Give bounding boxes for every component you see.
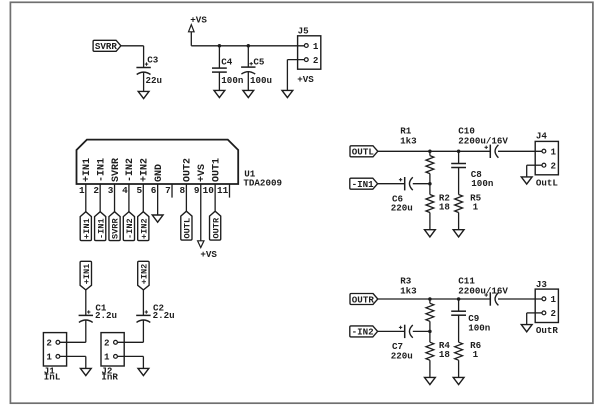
svg-text:J3: J3 [536, 279, 548, 290]
svg-text:OutR: OutR [536, 325, 559, 336]
svg-text:J4: J4 [536, 131, 548, 142]
svg-text:2: 2 [104, 338, 110, 349]
svg-text:-IN2: -IN2 [125, 218, 135, 239]
svg-text:OUT1: OUT1 [211, 158, 222, 182]
svg-text:+IN2: +IN2 [140, 264, 150, 285]
svg-text:2200u/16V: 2200u/16V [458, 286, 508, 297]
svg-text:-IN1: -IN1 [352, 179, 375, 190]
svg-text:+IN1: +IN1 [82, 158, 93, 182]
svg-text:1: 1 [473, 349, 479, 360]
svg-text:1: 1 [473, 201, 479, 212]
svg-text:TDA2009: TDA2009 [243, 178, 282, 189]
svg-text:+IN1: +IN1 [82, 218, 92, 239]
svg-text:1k3: 1k3 [400, 135, 417, 146]
svg-text:11: 11 [217, 185, 229, 196]
svg-text:+IN1: +IN1 [82, 264, 92, 285]
svg-text:+VS: +VS [190, 14, 207, 25]
svg-text:OUTR: OUTR [352, 294, 375, 305]
svg-text:1: 1 [79, 185, 85, 196]
svg-text:2.2u: 2.2u [153, 310, 175, 321]
svg-text:100n: 100n [221, 75, 243, 86]
svg-text:2: 2 [551, 161, 557, 172]
svg-text:OUT2: OUT2 [183, 158, 194, 182]
svg-text:+VS: +VS [197, 164, 208, 182]
svg-text:10: 10 [203, 185, 215, 196]
svg-text:1k3: 1k3 [400, 286, 417, 297]
svg-text:18: 18 [439, 349, 451, 360]
svg-text:-IN1: -IN1 [96, 158, 107, 182]
svg-text:18: 18 [439, 201, 451, 212]
svg-text:1: 1 [551, 294, 557, 305]
svg-text:5: 5 [136, 185, 142, 196]
svg-text:1: 1 [313, 41, 319, 52]
svg-text:-IN2: -IN2 [125, 158, 136, 182]
svg-text:+IN2: +IN2 [140, 158, 151, 182]
svg-text:InL: InL [44, 371, 61, 382]
svg-text:100n: 100n [471, 178, 493, 189]
svg-text:SVRR: SVRR [111, 218, 121, 239]
svg-text:7: 7 [165, 185, 171, 196]
svg-text:+VS: +VS [297, 74, 314, 85]
svg-text:2: 2 [46, 338, 52, 349]
svg-text:2.2u: 2.2u [95, 310, 117, 321]
svg-text:C3: C3 [147, 55, 159, 66]
svg-text:9: 9 [194, 185, 200, 196]
svg-text:GND: GND [154, 164, 165, 182]
svg-text:+IN2: +IN2 [139, 218, 149, 239]
svg-text:220u: 220u [391, 203, 413, 214]
svg-text:-IN2: -IN2 [352, 327, 374, 338]
svg-text:6: 6 [151, 185, 157, 196]
svg-text:4: 4 [122, 185, 128, 196]
svg-text:22u: 22u [146, 75, 163, 86]
svg-text:C5: C5 [253, 56, 265, 67]
svg-text:2: 2 [551, 308, 557, 319]
svg-text:SVRR: SVRR [95, 41, 118, 52]
svg-text:1: 1 [104, 352, 110, 363]
svg-text:InR: InR [101, 371, 118, 382]
svg-text:100u: 100u [250, 75, 272, 86]
svg-text:1: 1 [551, 146, 557, 157]
svg-text:OUTL: OUTL [183, 218, 193, 239]
svg-text:-IN1: -IN1 [96, 218, 106, 239]
svg-text:8: 8 [180, 185, 186, 196]
svg-text:+VS: +VS [200, 249, 217, 260]
svg-text:2: 2 [93, 185, 99, 196]
svg-text:OUTL: OUTL [352, 147, 375, 158]
svg-text:OUTR: OUTR [211, 217, 221, 238]
svg-text:2: 2 [313, 55, 319, 66]
svg-text:SVRR: SVRR [111, 158, 122, 182]
svg-text:OutL: OutL [536, 177, 559, 188]
svg-text:J5: J5 [298, 26, 310, 37]
svg-text:1: 1 [46, 352, 52, 363]
svg-text:C4: C4 [221, 56, 233, 67]
svg-text:220u: 220u [391, 350, 413, 361]
svg-text:2200u/16V: 2200u/16V [458, 135, 508, 146]
svg-text:3: 3 [108, 185, 114, 196]
svg-text:100n: 100n [468, 322, 490, 333]
